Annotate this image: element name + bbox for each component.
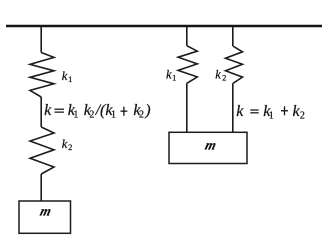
svg-text:k2: k2 <box>215 67 226 82</box>
spring k1 (series) <box>30 53 54 98</box>
wire right-2 top <box>232 26 234 46</box>
svg-text:k1: k1 <box>263 103 274 122</box>
wire left top <box>40 26 42 53</box>
wire left bottom <box>40 174 42 201</box>
spring k1 (parallel) <box>178 46 197 84</box>
svg-text:k1: k1 <box>62 69 73 84</box>
wire right-1 top <box>186 26 188 46</box>
svg-text:k2: k2 <box>84 102 95 121</box>
svg-text:k2: k2 <box>133 102 144 121</box>
spring k2 (parallel) <box>226 46 243 84</box>
svg-text:k1: k1 <box>166 68 176 83</box>
svg-text:k: k <box>236 103 244 120</box>
wire left middle <box>40 97 42 127</box>
mass m right <box>169 132 247 163</box>
svg-text:m: m <box>204 138 218 153</box>
equation parallel k = k1 + k2 <box>236 103 305 122</box>
svg-text:m: m <box>39 204 53 219</box>
svg-text:k2: k2 <box>62 137 73 152</box>
svg-text:/(k1: /(k1 <box>95 102 116 121</box>
wire right-1 bottom <box>186 83 188 132</box>
equation series k = k1 k2/(k1 + k2) <box>44 102 150 121</box>
mass m left <box>19 201 71 233</box>
svg-text:k: k <box>44 102 52 119</box>
svg-text:k1: k1 <box>68 102 79 121</box>
svg-text:k2: k2 <box>293 103 305 122</box>
spring k2 (series) <box>30 127 54 174</box>
wire right-2 bottom <box>232 84 234 133</box>
ceiling <box>6 25 322 27</box>
svg-text:): ) <box>144 102 150 119</box>
